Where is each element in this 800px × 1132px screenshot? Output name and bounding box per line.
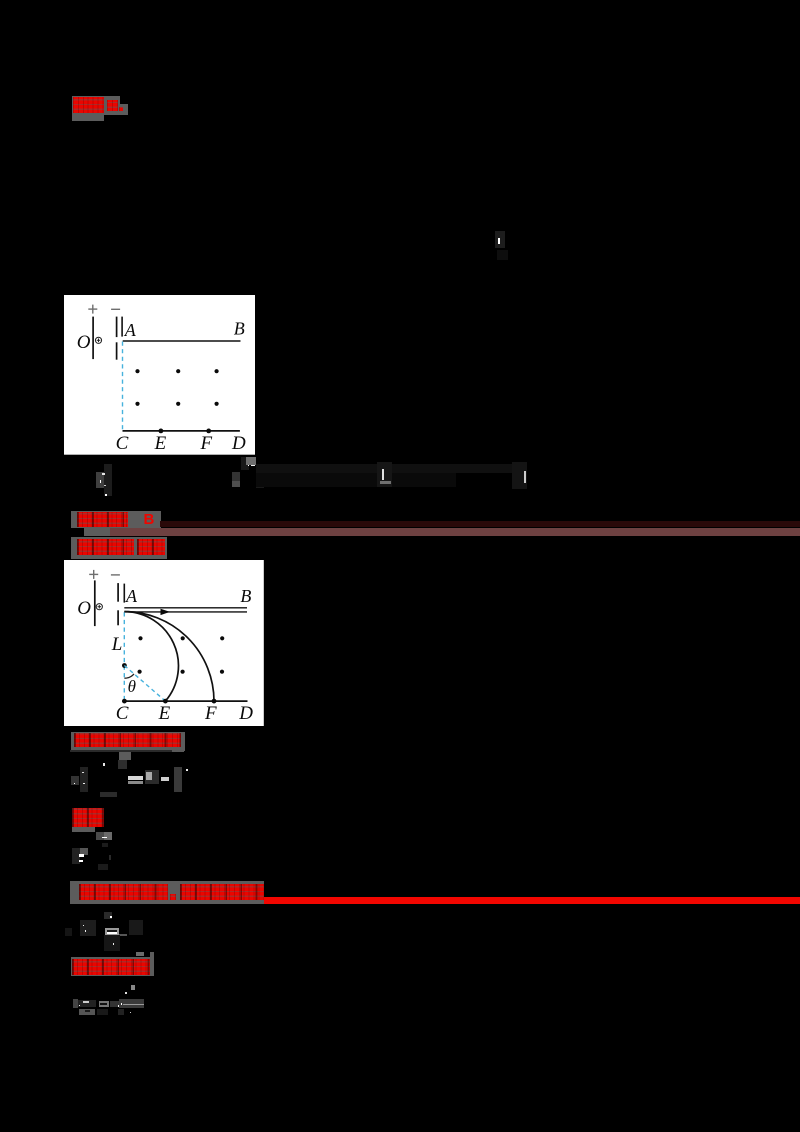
point C [122,698,127,703]
left plate [92,317,94,359]
options row faint marks [96,472,104,488]
boundary AB [122,340,240,342]
svg-text:B: B [240,586,251,606]
beam line with arrow [124,611,247,613]
dark red band [160,521,800,528]
dashed AC [123,612,125,701]
boundary segment above A [121,317,123,337]
red period text [79,884,168,900]
svg-text:D: D [231,433,246,454]
brown red band [110,528,800,536]
svg-text:C: C [115,433,128,454]
particle source [96,603,102,609]
field dots [137,636,224,674]
svg-text:E: E [158,703,171,724]
svg-text:O: O [76,332,90,353]
dashed radius to E [124,665,165,701]
point E [163,698,168,703]
svg-text:A: A [123,320,136,340]
angle arc [124,674,134,678]
svg-text:A: A [125,586,138,606]
boundary AB [124,606,247,608]
period line highlight [70,881,264,904]
point E [158,429,163,434]
red data text [72,959,151,975]
svg-text:F: F [199,433,212,454]
red answer letter B [144,511,158,528]
svg-text:F: F [204,703,217,724]
solve line highlight [72,808,104,827]
boundary CD [122,430,239,432]
data line highlight [71,957,154,977]
point F [206,429,211,434]
boundary segment above A [123,583,125,602]
red answer brackets text [77,512,128,527]
formula final marks [131,985,135,991]
geometry line highlight [71,732,185,751]
plus terminal [89,570,98,579]
right plate with slit [117,583,119,602]
svg-text:O: O [77,598,91,619]
dashed AC [121,342,123,431]
trajectory arc to F [124,611,214,700]
red geometry text [74,733,181,747]
svg-text:C: C [116,703,129,724]
plus terminal [88,305,97,314]
figure 2 [64,560,264,726]
svg-text:θ: θ [128,677,136,696]
gray nub below figure 1 [246,457,256,465]
tiny formula top right [495,231,505,249]
svg-text:D: D [238,703,253,724]
figure 2 background [64,560,264,726]
minus terminal [111,574,120,576]
right plate with slit [115,317,117,337]
analysis line highlight [71,537,167,559]
left plate [94,580,96,626]
field dots [135,369,218,406]
title red text [73,97,104,113]
trajectory arc to E [124,611,178,700]
red solve text [72,808,104,827]
figure 1 [64,295,256,455]
answer line highlight [71,511,161,528]
svg-text:L: L [111,634,123,655]
formula radius marks [70,750,182,752]
red band right [264,897,800,904]
formula r1 marks [96,832,104,840]
formula qvB marks [65,928,72,936]
title highlight [72,96,120,115]
figure 1 background [64,295,256,455]
point F [212,698,217,703]
minus terminal [111,309,120,311]
svg-text:B: B [233,319,244,339]
center dot [122,663,127,668]
boundary CD [123,700,247,702]
svg-text:E: E [153,433,166,454]
particle source [95,337,101,343]
red analysis text [77,539,134,555]
red comma [170,894,176,900]
